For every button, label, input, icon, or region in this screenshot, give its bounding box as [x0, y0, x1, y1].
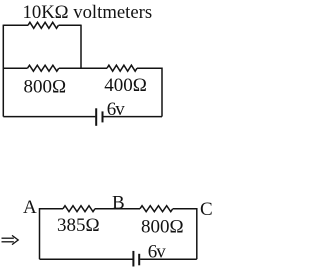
svg-text:C: C: [200, 199, 213, 220]
svg-text:385Ω: 385Ω: [57, 215, 100, 236]
wire: circuit1 top-right segment: [59, 24, 82, 26]
wire: circuit1 bottom right segment: [103, 116, 162, 118]
resistor 385Ω circuit2 (zigzag): [63, 206, 95, 212]
wire: inner loop right vertical: [80, 25, 82, 69]
wire: circuit1 bottom left segment: [3, 116, 95, 118]
svg-text:800Ω: 800Ω: [141, 217, 184, 238]
wire: middle wire center segment: [59, 67, 107, 69]
wire: circuit2 bottom left segment: [40, 258, 133, 260]
battery B1 long plate: [95, 108, 97, 126]
svg-text:6v: 6v: [107, 99, 126, 120]
svg-text:B: B: [112, 192, 125, 213]
resistor 400Ω circuit1 (zigzag): [107, 65, 137, 71]
wire: circuit2 top wire A-to-resistor: [40, 208, 64, 210]
battery B2 short plate: [138, 254, 140, 265]
battery B1 short plate: [102, 111, 104, 122]
wire: circuit1 outer right vertical: [161, 68, 163, 117]
wire: circuit2 right vertical: [196, 208, 198, 259]
svg-text:6v: 6v: [148, 242, 167, 263]
wire: middle wire left segment: [3, 67, 27, 69]
wire: circuit2 top wire to C: [173, 208, 197, 210]
wire: circuit2 left vertical: [39, 208, 41, 259]
svg-text:A: A: [23, 197, 37, 218]
wire: circuit1 outer left vertical: [2, 25, 4, 117]
implies arrow ⇒: [2, 235, 19, 244]
battery B2 long plate: [132, 251, 134, 267]
resistor 800Ω circuit2 (zigzag): [140, 206, 173, 212]
resistor 800Ω circuit1 (zigzag): [28, 65, 59, 71]
svg-text:400Ω: 400Ω: [104, 75, 147, 96]
svg-text:10KΩ voltmeters: 10KΩ voltmeters: [23, 2, 153, 23]
wire: circuit2 bottom right segment: [140, 258, 197, 260]
svg-text:800Ω: 800Ω: [24, 76, 67, 97]
wire: middle wire right segment: [137, 67, 162, 69]
wire: circuit2 top wire B segment: [95, 208, 140, 210]
resistor 10KΩ (zigzag on top wire): [28, 22, 58, 28]
wire: circuit1 top-left segment: [3, 24, 28, 26]
